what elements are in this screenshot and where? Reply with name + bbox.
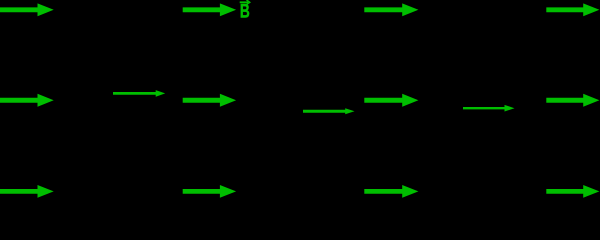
velocity arrow v1 (small, between col1 and col2) xyxy=(113,90,165,97)
field arrow B row3 col3 xyxy=(364,185,418,198)
field arrow B row2 col1 xyxy=(0,94,54,107)
field arrow B row3 col1 xyxy=(0,185,54,198)
velocity arrow v2 (small, between col2 and col3) xyxy=(303,108,355,114)
field arrow B row1 col1 xyxy=(0,3,54,16)
field arrow B row2 col3 xyxy=(364,94,418,107)
field arrow B row3 col2 xyxy=(183,185,236,198)
field arrow B row1 col3 xyxy=(364,3,418,16)
velocity arrow v3 (small, between col3 and col4) xyxy=(463,105,515,112)
field arrow B row3 col4 xyxy=(546,185,599,198)
label B vector xyxy=(240,0,250,22)
field arrow B row1 col2 xyxy=(183,3,236,16)
field arrow B row2 col4 xyxy=(546,94,599,107)
field arrow B row1 col4 xyxy=(546,3,599,16)
field arrow B row2 col2 xyxy=(183,94,236,107)
